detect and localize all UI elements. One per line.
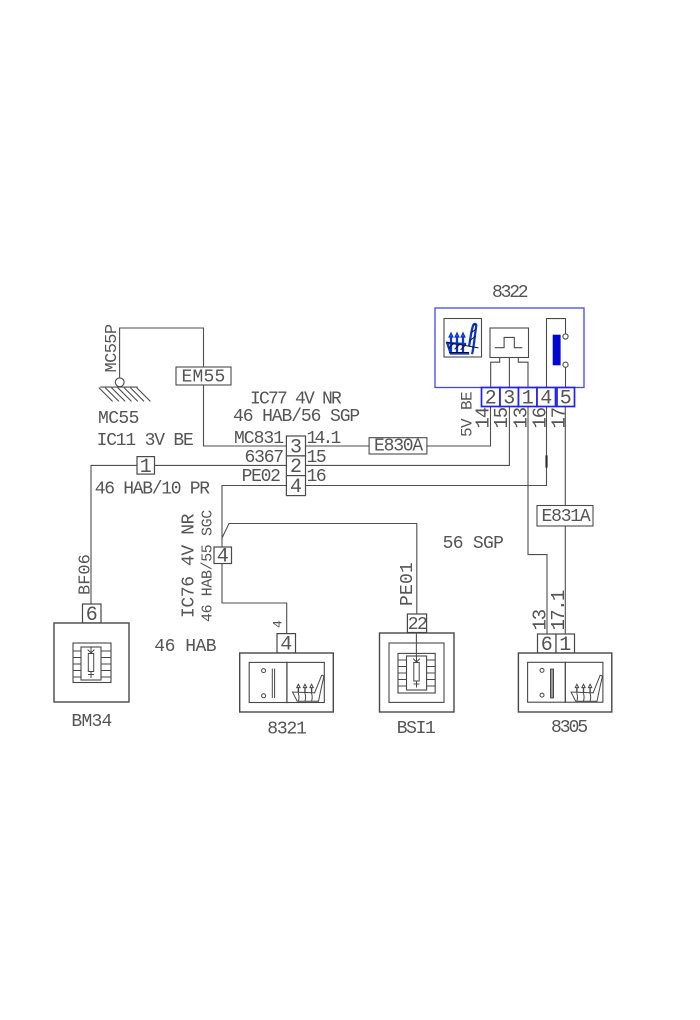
wire net 15 right segment — [306, 407, 510, 466]
svg-text:46 HAB: 46 HAB — [154, 637, 217, 657]
label box E831A — [537, 506, 593, 527]
junction tick on wire 16 — [545, 457, 547, 467]
ground MC55 — [99, 378, 150, 401]
svg-text:E831A: E831A — [542, 507, 591, 527]
outer box — [518, 653, 611, 712]
svg-text:8322: 8322 — [492, 283, 528, 303]
outer box — [240, 653, 334, 712]
heated seat icon (blue) — [447, 324, 479, 354]
pin 3 — [500, 388, 519, 407]
svg-text:1: 1 — [140, 456, 152, 479]
svg-text:IC76 4V NR: IC76 4V NR — [180, 513, 200, 618]
svg-text:IC11 3V BE: IC11 3V BE — [97, 431, 193, 451]
wire net 13 from 8322 pin1 to 8305 pin6 — [528, 407, 547, 635]
heated seat icon box — [444, 319, 482, 358]
svg-text:16: 16 — [307, 467, 326, 487]
relay element (blue) — [553, 335, 561, 366]
svg-text:MC831: MC831 — [234, 429, 283, 449]
timer switch box — [490, 328, 529, 358]
divider — [564, 662, 566, 702]
svg-text:17.1: 17.1 — [548, 590, 570, 630]
fuse box — [407, 656, 427, 690]
connector pin box 1 (IC11) — [137, 457, 155, 475]
timer pin stubs — [491, 358, 500, 388]
pin 4 — [537, 388, 556, 407]
component BSI1 — [380, 614, 455, 712]
svg-text:17: 17 — [549, 408, 571, 429]
svg-text:2: 2 — [485, 387, 497, 410]
component 8305 — [518, 634, 611, 712]
fuse element — [414, 657, 420, 688]
svg-text:3: 3 — [503, 387, 515, 410]
svg-text:6367: 6367 — [245, 448, 284, 468]
wire BSI1 pin22 internal — [415, 633, 417, 658]
fuse box — [81, 647, 101, 680]
pin 5 — [557, 388, 575, 407]
svg-text:15: 15 — [307, 448, 326, 468]
box 3 — [398, 653, 435, 693]
svg-text:BSI1: BSI1 — [397, 719, 435, 739]
switch contacts — [540, 668, 544, 672]
pin box 1 — [556, 634, 575, 653]
fuse side ticks — [74, 651, 82, 677]
pin box 6 — [538, 634, 557, 653]
pin box 6 — [83, 604, 102, 623]
svg-text:EM55: EM55 — [182, 368, 226, 388]
svg-text:E830A: E830A — [374, 437, 423, 457]
svg-text:46 HAB/10 PR: 46 HAB/10 PR — [95, 480, 211, 500]
svg-text:4: 4 — [217, 545, 229, 568]
svg-text:46 HAB/56 SGP: 46 HAB/56 SGP — [233, 407, 359, 427]
wire branch from IC76 pin4 to BSI1 pin22 (net PE01) — [222, 524, 417, 615]
pin box 4 — [277, 634, 296, 653]
svg-text:BF06: BF06 — [77, 554, 96, 595]
fuse side ticks — [399, 660, 407, 686]
component BM34 — [54, 604, 129, 702]
inner box — [528, 662, 603, 702]
connector IC76 pin box 4 — [214, 547, 232, 564]
label box E830A — [369, 438, 427, 454]
wire from IC76 pin4 down to 8321 pin4 — [222, 563, 287, 634]
svg-text:56 SGP: 56 SGP — [443, 534, 504, 554]
svg-text:4: 4 — [290, 476, 302, 499]
svg-text:1: 1 — [522, 387, 534, 410]
wire net 16 right segment to 8322 pin4 — [306, 407, 547, 486]
box 2 — [389, 643, 444, 702]
outer box — [380, 633, 455, 712]
connector IC77 pin box 3 — [286, 436, 305, 456]
svg-text:PE01: PE01 — [398, 562, 418, 606]
middle box — [73, 643, 111, 683]
box 8322 — [435, 308, 584, 388]
fuse element — [88, 648, 94, 678]
svg-text:MC55: MC55 — [98, 409, 139, 429]
svg-text:PE02: PE02 — [242, 467, 281, 487]
svg-text:22: 22 — [408, 615, 427, 635]
component 8322 — [435, 283, 584, 410]
wire MC55 to EM55 to connector pin 3 (net MC831) — [120, 328, 287, 446]
svg-text:4: 4 — [271, 620, 286, 628]
inner box — [249, 662, 324, 702]
svg-text:8321: 8321 — [267, 720, 306, 740]
svg-text:MC55P: MC55P — [103, 324, 122, 372]
label box EM55 — [176, 367, 231, 385]
svg-text:46 HAB/55 SGC: 46 HAB/55 SGC — [200, 510, 217, 622]
pin row 8322 : pin 2 — [482, 388, 501, 407]
wire net 14.1 from connector pin3 via E830A up to 8322 pin 2 — [306, 407, 491, 447]
svg-text:4: 4 — [540, 387, 552, 410]
seat icon — [571, 675, 602, 701]
svg-text:BM34: BM34 — [71, 712, 111, 732]
relay contact circles — [563, 334, 568, 339]
svg-text:14.1: 14.1 — [307, 429, 341, 449]
component 8321 — [240, 620, 334, 712]
outer box — [54, 623, 129, 702]
svg-text:8305: 8305 — [551, 718, 587, 738]
svg-text:5: 5 — [560, 387, 572, 410]
pin 1 — [519, 388, 538, 407]
wire net 17 from 8322 pin5 to 8305 pin1 — [564, 407, 566, 635]
divider — [286, 662, 288, 702]
seat icon — [293, 675, 324, 701]
connector IC77 pin box 2 — [286, 456, 305, 476]
connector IC77 pin box 4 — [286, 476, 305, 496]
switch contacts — [262, 669, 266, 673]
relay contact wires — [547, 319, 566, 388]
pin box 22 — [407, 614, 426, 633]
pulse waveform — [495, 337, 522, 347]
wire net 6367/15 from BM34 via box1 to connector pin2 and 8322 pin3 — [91, 465, 286, 604]
wire net PE02/16 left segment down to IC76 pin4 — [222, 486, 286, 548]
